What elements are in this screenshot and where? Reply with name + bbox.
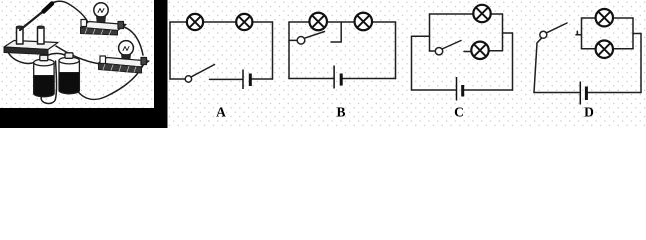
battery B3 long plate xyxy=(456,77,458,101)
wire B bottom left xyxy=(289,78,333,80)
lamp 1 bulb xyxy=(94,3,108,17)
lamp 1 screw base xyxy=(97,17,106,27)
svg-text:C: C xyxy=(454,105,464,120)
switch S4 fixed contact tick xyxy=(576,31,578,35)
wire C bottom right xyxy=(464,89,512,91)
cell 2 bottom black half xyxy=(59,73,79,94)
svg-text:D: D xyxy=(584,105,594,120)
wire C outer right xyxy=(512,33,514,90)
wire from switch lever over to lamp 1 left terminal xyxy=(49,1,88,21)
wire D right vertical of parallel block xyxy=(632,18,634,49)
lamp L7 xyxy=(596,9,613,26)
switch post 2 cap xyxy=(38,26,44,28)
switch S2 fixed contact riser to top wire xyxy=(331,22,341,42)
switch S3 blade xyxy=(442,41,461,50)
wire from switch base right end to lamp 2 left terminal xyxy=(56,46,98,64)
lamp 2 left terminal xyxy=(100,56,106,64)
lamp 1 holder front face xyxy=(81,28,118,36)
lamp L2 xyxy=(236,14,252,30)
lamp 1 filament xyxy=(98,9,104,13)
wire A right xyxy=(272,22,274,79)
wire descending between cells with hook xyxy=(41,61,56,104)
lamp L8 xyxy=(596,41,613,58)
cell 2 top ellipse xyxy=(59,57,79,64)
wire from switch base to cell 1 button xyxy=(7,50,41,63)
lamp 1 right terminal xyxy=(118,22,124,29)
lamp L1 xyxy=(187,14,203,30)
wire A bottom left to switch xyxy=(170,78,185,80)
wire B right xyxy=(395,22,397,79)
cell 1 body xyxy=(34,63,54,97)
cell 1 button terminal xyxy=(40,55,48,61)
battery B4 long plate xyxy=(579,82,581,105)
photo illustration of real circuit xyxy=(4,1,149,103)
lamp 2 holder top face xyxy=(99,58,150,68)
svg-text:B: B xyxy=(336,105,345,120)
black band at bottom of photo xyxy=(0,108,168,128)
wire C pivot connector xyxy=(430,50,435,52)
switch lever handle xyxy=(44,4,53,12)
wire D outer right xyxy=(640,34,642,93)
lamp 1 holder top face xyxy=(81,22,127,31)
wire D lower rail xyxy=(582,48,634,50)
cell 1 bottom black half xyxy=(34,76,54,97)
lamp 2 filament xyxy=(123,47,129,51)
wire D bottom right xyxy=(588,92,641,94)
wire B bottom right xyxy=(342,78,396,80)
lamp L3 xyxy=(309,13,327,31)
wire A top xyxy=(170,21,273,23)
wire D bottom left xyxy=(534,92,579,94)
lamp L5 xyxy=(473,5,490,22)
battery B1 short plate xyxy=(249,74,252,87)
wire C upper rail xyxy=(430,13,503,15)
lamp 2 holder front face xyxy=(99,63,142,73)
knife switch base front face xyxy=(4,47,48,55)
lamp L6 xyxy=(471,42,488,59)
lamp 2 screw base xyxy=(122,55,131,64)
switch post 2 xyxy=(38,27,45,44)
knife switch base top face xyxy=(4,41,58,50)
lamp 2 bulb xyxy=(119,41,134,56)
wire D right feed xyxy=(633,33,641,35)
switch S1 fixed contact and wire to battery xyxy=(210,78,243,80)
switch S3 fixed contact xyxy=(464,51,471,53)
wire B top xyxy=(289,21,396,23)
switch post 1 cap xyxy=(17,26,23,28)
lamp 2 right terminal xyxy=(141,58,147,65)
battery B2 short plate xyxy=(340,74,343,86)
battery B4 short plate xyxy=(585,87,588,101)
wire D upper rail xyxy=(582,17,634,19)
switch post 1 xyxy=(17,27,24,44)
lamp L4 xyxy=(355,13,373,31)
black vertical bar at right of photo xyxy=(154,0,168,128)
switch S1 blade xyxy=(191,65,214,77)
switch S1 pivot xyxy=(185,76,191,82)
battery B3 short plate xyxy=(461,85,464,97)
battery B2 long plate xyxy=(333,66,335,89)
wire from lamp 2 right terminal down to cells loop xyxy=(77,65,144,100)
battery B1 long plate xyxy=(242,70,244,90)
switch S4 pivot xyxy=(540,31,547,38)
switch S2 blade xyxy=(305,32,325,39)
wire A left xyxy=(169,22,171,79)
wire linking cell 1 button to cell 2 button xyxy=(44,53,65,57)
wire C left feed xyxy=(412,35,430,37)
svg-text:A: A xyxy=(216,105,226,120)
switch S4 blade xyxy=(546,23,567,33)
wire C outer left xyxy=(411,36,413,90)
wire B left xyxy=(288,22,290,79)
wire from lamp 1 right terminal to lamp 2 right terminal xyxy=(121,26,143,55)
switch S2 pivot xyxy=(297,37,305,45)
wire D left vertical of parallel block xyxy=(581,18,583,49)
cell 1 top ellipse xyxy=(34,59,54,66)
lamp 1 left terminal xyxy=(81,20,87,27)
wire C left vertical of parallel block xyxy=(429,14,431,51)
wire B switch stub xyxy=(289,39,297,41)
cell 2 button terminal xyxy=(65,53,73,59)
wire A battery to right xyxy=(252,78,273,80)
cell 2 body xyxy=(59,61,79,94)
wire C right vertical of parallel block xyxy=(502,14,504,51)
switch S3 pivot xyxy=(435,48,442,55)
wire C bottom left xyxy=(412,89,456,91)
wire C right feed xyxy=(503,32,513,34)
switch S4 fixed contact to block xyxy=(576,34,582,36)
wire D left down from switch xyxy=(534,38,542,92)
wire C lower rail right xyxy=(489,50,503,52)
switch lever arm xyxy=(20,9,46,30)
